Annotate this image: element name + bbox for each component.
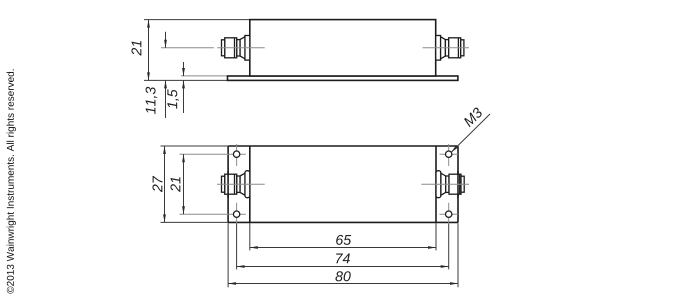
top view: left connector centerline: [161, 47, 214, 49]
hole centerline cross bottom-left with 74 extension: [180, 203, 246, 270]
top view: extension line flange-bottom: [144, 79, 228, 81]
M3 thread callout leader: [451, 107, 490, 153]
bottom view: right connector: [436, 171, 464, 198]
top view: extension line flange-top: [181, 75, 228, 77]
bottom view: plate outline: [228, 146, 458, 222]
bottom view: left connector: [222, 171, 250, 198]
copyright text: [7, 69, 16, 293]
dimension 1,5: [167, 62, 184, 113]
top view: right connector: [436, 36, 464, 61]
dimension 11,3: [146, 32, 167, 118]
dimension 74: [237, 254, 449, 268]
top view: extension line box-top: [144, 19, 250, 21]
dimension 65: [250, 223, 436, 250]
bottom view: plate edge over right connector: [457, 171, 459, 198]
top view: flange plate (side): [228, 76, 458, 80]
dimension 80: [228, 223, 458, 287]
top view: left connector: [222, 36, 250, 61]
hole centerline cross top-right: [440, 144, 458, 166]
mounting hole bottom-left: [233, 211, 239, 217]
top view: body box: [250, 20, 436, 76]
dimension 21 (top view height): [131, 20, 149, 81]
dimension 27: [152, 146, 228, 222]
bottom view: body edge left: [249, 146, 251, 222]
hole centerline cross bottom-right with 74 extension: [440, 203, 458, 270]
mounting hole top-left: [233, 151, 239, 157]
hole centerline cross top-left: [180, 144, 246, 166]
bottom view: body edge right: [435, 146, 437, 222]
top view: right connector centerline: [423, 47, 470, 49]
dimension 21 (hole spacing vertical): [170, 154, 184, 214]
mounting hole bottom-right: [446, 211, 452, 217]
bottom view: left connector centerline: [217, 183, 265, 185]
mounting hole top-right: [446, 151, 452, 157]
bottom view: right connector centerline: [421, 183, 469, 185]
bottom view: plate edge over left connector: [227, 171, 229, 198]
